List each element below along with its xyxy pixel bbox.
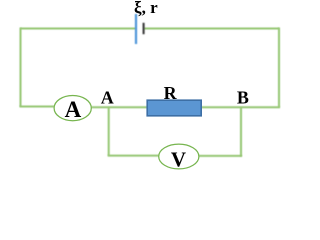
wire ammeter to resistor bbox=[91, 106, 147, 108]
wire node B vertical bbox=[240, 107, 242, 156]
wire resistor to right wall bbox=[201, 106, 280, 108]
svg-text:V: V bbox=[171, 148, 186, 172]
voltmeter V (ellipse) bbox=[159, 144, 199, 169]
battery short plate (negative) bbox=[143, 23, 145, 34]
svg-text:R: R bbox=[164, 83, 178, 103]
battery long plate (positive) bbox=[135, 14, 137, 44]
wire bottom left to voltmeter bbox=[108, 155, 159, 157]
svg-text:A: A bbox=[65, 97, 82, 122]
svg-text:A: A bbox=[101, 88, 114, 108]
wire node A vertical bbox=[108, 107, 110, 155]
wire top-right segment bbox=[144, 28, 279, 30]
svg-text:ξ, r: ξ, r bbox=[134, 0, 158, 17]
wire top-left segment bbox=[21, 28, 137, 30]
wire left vertical bbox=[20, 28, 22, 107]
ammeter A (ellipse) bbox=[54, 96, 91, 121]
wire left to ammeter bbox=[20, 106, 55, 108]
svg-text:B: B bbox=[237, 88, 249, 108]
resistor R (body) bbox=[147, 100, 201, 116]
wire voltmeter to node B vertical bbox=[199, 155, 242, 157]
wire right vertical bbox=[278, 28, 280, 108]
